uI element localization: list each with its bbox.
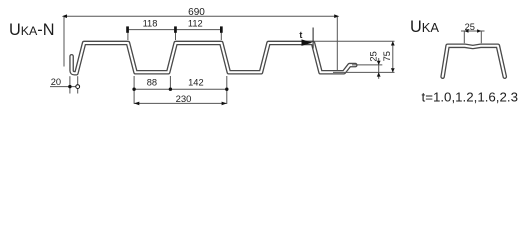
profile sheet UKA (right single rib) <box>443 46 505 77</box>
svg-text:20: 20 <box>51 77 61 87</box>
svg-text:142: 142 <box>188 78 204 88</box>
svg-text:88: 88 <box>147 78 157 88</box>
profile sheet UKA-N <box>72 43 356 73</box>
svg-text:25: 25 <box>369 51 379 61</box>
svg-text:t=1.0,1.2,1.6,2.3: t=1.0,1.2,1.6,2.3 <box>422 89 518 104</box>
svg-text:75: 75 <box>382 51 392 61</box>
dimension 230 <box>134 102 227 104</box>
dimension 20 (bottom left) <box>50 76 80 93</box>
dimension 25 (UKA top) <box>461 31 485 43</box>
dimension 25 (right, vertical) <box>378 58 380 79</box>
right side reference lines <box>314 41 395 72</box>
dimension 690 <box>64 16 337 70</box>
svg-text:690: 690 <box>188 7 205 18</box>
dimension 75 (right, vertical) <box>392 41 394 72</box>
svg-text:25: 25 <box>465 22 475 32</box>
dimension 88 / 142 <box>134 76 227 104</box>
svg-text:t: t <box>299 30 302 40</box>
svg-text:UKA-N: UKA-N <box>9 21 54 39</box>
svg-text:UKA: UKA <box>410 18 439 36</box>
svg-text:112: 112 <box>188 19 203 29</box>
svg-text:230: 230 <box>176 94 192 105</box>
svg-text:118: 118 <box>143 19 158 29</box>
dimension 118 / 112 <box>128 30 222 40</box>
